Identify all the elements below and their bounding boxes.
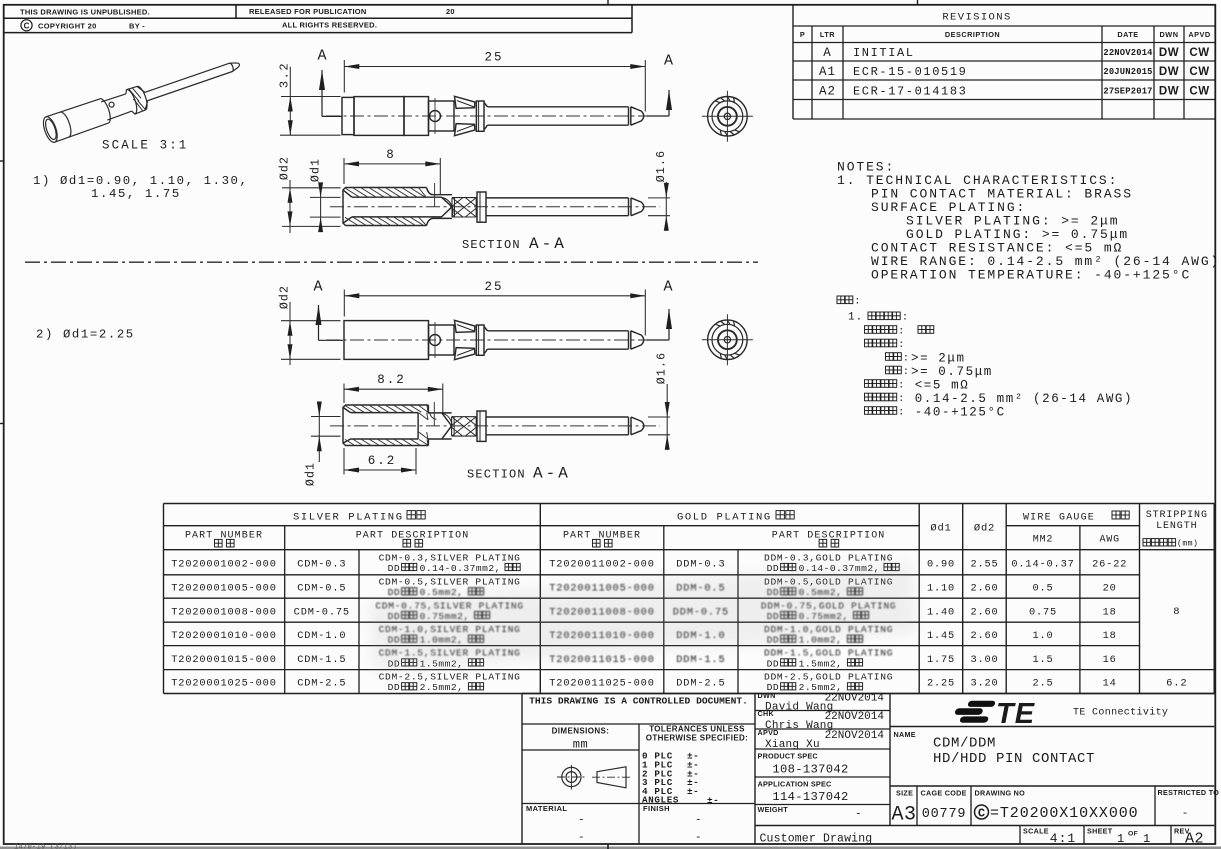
svg-text:DD: DD	[767, 563, 780, 574]
svg-text:DESCRIPTION: DESCRIPTION	[945, 30, 1000, 39]
svg-text:2.5mm2,: 2.5mm2,	[420, 682, 464, 693]
svg-text:DDM-0.3: DDM-0.3	[676, 558, 725, 570]
svg-text:3.00: 3.00	[970, 654, 998, 666]
dimension 3.2	[281, 96, 341, 98]
svg-text:THIS DRAWING IS A CONTROLLED D: THIS DRAWING IS A CONTROLLED DOCUMENT.	[529, 695, 748, 706]
svg-text:0.14-0.37mm2,: 0.14-0.37mm2,	[420, 563, 501, 574]
svg-text:CW: CW	[1189, 86, 1209, 98]
svg-text:PART NUMBER: PART NUMBER	[563, 531, 641, 542]
svg-text:CDM-0.75: CDM-0.75	[294, 606, 350, 618]
end view crosshair	[702, 339, 753, 341]
svg-text:CDM-0.3: CDM-0.3	[297, 558, 346, 570]
end view circles	[708, 97, 748, 137]
svg-text:25: 25	[484, 280, 503, 294]
svg-text:A2: A2	[819, 85, 836, 99]
svg-text:1.75: 1.75	[927, 654, 955, 666]
svg-text:INITIAL: INITIAL	[853, 46, 915, 60]
svg-text:-: -	[695, 832, 702, 844]
svg-text:A-A: A-A	[529, 235, 567, 253]
svg-text:REVISIONS: REVISIONS	[942, 12, 1011, 24]
svg-text:1.0: 1.0	[1032, 630, 1053, 642]
svg-text:4:1: 4:1	[1050, 831, 1076, 846]
svg-text::: :	[854, 297, 860, 308]
svg-text:1.5: 1.5	[1032, 654, 1053, 666]
svg-text:<=5 mΩ: <=5 mΩ	[915, 378, 970, 392]
svg-text:DWN: DWN	[1160, 30, 1179, 39]
svg-text:20JUN2015: 20JUN2015	[1103, 67, 1152, 77]
bore end funnel	[442, 197, 453, 207]
svg-text:22NOV2014: 22NOV2014	[825, 711, 885, 723]
projection symbol	[557, 765, 631, 790]
svg-text:=T20200X10XX000: =T20200X10XX000	[990, 805, 1139, 822]
svg-text::: :	[898, 326, 904, 337]
svg-text:FINISH: FINISH	[643, 804, 670, 813]
svg-text:ECR-17-014183: ECR-17-014183	[853, 85, 967, 99]
svg-text:2.5: 2.5	[1032, 678, 1053, 690]
fold mark top right	[917, 0, 919, 6]
svg-text:ALL RIGHTS RESERVED.: ALL RIGHTS RESERVED.	[282, 21, 377, 30]
svg-text:T2020001002-000: T2020001002-000	[171, 558, 276, 570]
svg-text:1.45: 1.45	[927, 630, 955, 642]
svg-text:WIRE GAUGE: WIRE GAUGE	[1023, 513, 1095, 524]
neck step	[427, 188, 453, 226]
svg-text:STRIPPING: STRIPPING	[1146, 510, 1208, 521]
svg-text:2.25: 2.25	[927, 678, 955, 690]
copyright symbol	[21, 20, 32, 31]
svg-text:22NOV2014: 22NOV2014	[825, 693, 885, 705]
retention crown fins	[455, 96, 475, 108]
svg-text:SILVER PLATING: SILVER PLATING	[293, 512, 404, 524]
svg-text:RELEASED FOR PUBLICATION: RELEASED FOR PUBLICATION	[249, 7, 367, 16]
svg-text:PART DESCRIPTION: PART DESCRIPTION	[772, 531, 886, 542]
svg-text:Ød1: Ød1	[309, 158, 322, 182]
svg-text:CDM-2.5,SILVER PLATING: CDM-2.5,SILVER PLATING	[379, 672, 521, 683]
svg-text:David Wang: David Wang	[765, 702, 834, 714]
unpublished notice box	[4, 17, 632, 19]
dimension diameter 1.6 (view4)	[648, 416, 670, 418]
notes chinese	[837, 296, 845, 304]
svg-text:DW: DW	[1159, 66, 1179, 78]
svg-text:SCALE: SCALE	[1023, 827, 1049, 836]
svg-text:A: A	[317, 48, 326, 65]
bore lines	[351, 412, 419, 414]
svg-text:APPLICATION SPEC: APPLICATION SPEC	[758, 780, 833, 789]
svg-text:PART DESCRIPTION: PART DESCRIPTION	[356, 531, 470, 542]
svg-text:THIS DRAWING IS UNPUBLISHED.: THIS DRAWING IS UNPUBLISHED.	[20, 7, 150, 16]
svg-text:TOLERANCES UNLESS: TOLERANCES UNLESS	[649, 725, 745, 734]
dimension 8	[344, 163, 440, 165]
svg-text:-: -	[695, 815, 702, 827]
svg-text:26-22: 26-22	[1092, 558, 1127, 570]
dimension diameter d1 (view4)	[311, 416, 341, 418]
svg-text::: :	[903, 367, 909, 378]
svg-text:-: -	[578, 815, 585, 827]
svg-text::: :	[898, 394, 904, 405]
svg-text:mm: mm	[573, 738, 588, 752]
svg-text:2.60: 2.60	[970, 583, 998, 595]
svg-text:DDM-2.5,GOLD PLATING: DDM-2.5,GOLD PLATING	[764, 672, 893, 683]
svg-text::: :	[898, 407, 904, 418]
dimension diameter d2 (view3)	[281, 320, 341, 322]
svg-text:0.90: 0.90	[927, 558, 955, 570]
svg-text:DIMENSIONS:: DIMENSIONS:	[552, 727, 610, 736]
svg-text:Ø1.6: Ø1.6	[655, 352, 668, 384]
svg-text:LTR: LTR	[820, 30, 835, 39]
svg-text:CDM/DDM: CDM/DDM	[933, 736, 996, 752]
svg-text:OF: OF	[1128, 831, 1138, 838]
svg-text:CDM-1.0: CDM-1.0	[297, 630, 346, 642]
svg-text:20: 20	[446, 7, 455, 16]
svg-text:1.10: 1.10	[927, 583, 955, 595]
svg-text:NAME: NAME	[894, 730, 916, 739]
dim 25 extension lines	[343, 60, 345, 93]
scan edge band bottom	[0, 847, 1221, 849]
entry chamfer	[343, 407, 351, 412]
svg-text:00779: 00779	[922, 807, 967, 822]
svg-text:SECTION: SECTION	[467, 468, 526, 482]
svg-text:-40-+125°C: -40-+125°C	[915, 405, 1006, 419]
svg-text:>= 0.75μm: >= 0.75μm	[911, 365, 993, 379]
svg-text:2) Ød1=2.25: 2) Ød1=2.25	[36, 327, 135, 341]
dimension 6.2	[344, 469, 416, 471]
contact body rear barrel	[342, 97, 354, 134]
svg-text:T2020001005-000: T2020001005-000	[171, 583, 276, 595]
svg-text:DWN: DWN	[758, 691, 776, 700]
svg-text:T2020001010-000: T2020001010-000	[171, 630, 276, 642]
fold mark top center	[607, 0, 609, 5]
svg-text:CDM-2.5: CDM-2.5	[297, 678, 346, 690]
svg-text:DRAWING NO: DRAWING NO	[975, 789, 1026, 798]
contact body rear barrel	[344, 321, 429, 360]
svg-text::: :	[902, 313, 908, 324]
centerline	[330, 206, 660, 208]
title block frame	[521, 694, 523, 845]
svg-text:2.60: 2.60	[970, 630, 998, 642]
svg-text:DD: DD	[388, 587, 401, 598]
svg-text:2.60: 2.60	[970, 606, 998, 618]
svg-text:APVD: APVD	[758, 728, 779, 737]
svg-text:T2020001008-000: T2020001008-000	[171, 606, 276, 618]
svg-text:SCALE 3:1: SCALE 3:1	[102, 138, 188, 152]
svg-text:A: A	[664, 53, 673, 70]
svg-text:108-137042: 108-137042	[772, 763, 848, 777]
svg-text:0.14-0.37: 0.14-0.37	[1011, 558, 1074, 570]
svg-text::: :	[898, 340, 904, 351]
end view circles	[708, 320, 748, 360]
svg-text:14: 14	[1103, 678, 1117, 690]
bore end funnel	[442, 413, 451, 425]
svg-text:1: 1	[1117, 832, 1124, 846]
dim 25 extension lines	[343, 290, 345, 317]
svg-text:SHEET: SHEET	[1087, 827, 1113, 836]
dimension 25	[344, 66, 645, 68]
pin shaft	[488, 106, 629, 108]
svg-text:8: 8	[386, 148, 396, 162]
svg-text:1470-19 (3/13): 1470-19 (3/13)	[14, 844, 77, 849]
svg-text:6.2: 6.2	[1166, 678, 1187, 690]
centerline	[330, 425, 660, 427]
svg-text:COPYRIGHT 20: COPYRIGHT 20	[38, 21, 97, 30]
dimension 25	[344, 295, 645, 297]
fold mark left upper	[0, 160, 4, 162]
svg-text:OTHERWISE SPECIFIED:: OTHERWISE SPECIFIED:	[646, 734, 748, 743]
svg-text:1) Ød1=0.90, 1.10, 1.30,: 1) Ød1=0.90, 1.10, 1.30,	[33, 174, 249, 188]
dimension diameter 1.6	[648, 197, 670, 199]
svg-text:>= 2μm: >= 2μm	[911, 351, 966, 365]
svg-text:A3: A3	[892, 804, 917, 827]
dimension diameter d1	[310, 196, 341, 198]
svg-text:T2020001015-000: T2020001015-000	[171, 654, 276, 666]
svg-text:RESTRICTED TO: RESTRICTED TO	[1158, 788, 1220, 797]
svg-text:1.45, 1.75: 1.45, 1.75	[91, 187, 181, 201]
centerline	[326, 115, 660, 117]
svg-text:18: 18	[1103, 630, 1117, 642]
svg-text:A-A: A-A	[533, 465, 571, 483]
svg-text:ECR-15-010519: ECR-15-010519	[853, 65, 967, 79]
svg-text:CDM-0.5: CDM-0.5	[297, 583, 346, 595]
svg-text:DATE: DATE	[1117, 30, 1138, 39]
bullet tip	[631, 198, 644, 216]
svg-text:Ød1: Ød1	[930, 523, 951, 535]
svg-text:1.5mm2,: 1.5mm2,	[799, 658, 843, 669]
svg-text:±-: ±-	[687, 786, 699, 797]
svg-text:25: 25	[484, 51, 503, 65]
retention crown fins	[455, 320, 475, 332]
svg-text:Ød2: Ød2	[974, 523, 995, 535]
svg-text:TE Connectivity: TE Connectivity	[1073, 707, 1168, 719]
shaft	[486, 416, 629, 418]
end view crosshair	[702, 115, 753, 117]
svg-text:Customer Drawing: Customer Drawing	[760, 833, 873, 846]
svg-text:T2020001025-000: T2020001025-000	[171, 678, 276, 690]
svg-text:C: C	[24, 21, 30, 30]
svg-text:CHK: CHK	[758, 709, 775, 718]
end view crown tine marks	[733, 321, 734, 326]
svg-text:MATERIAL: MATERIAL	[526, 804, 567, 813]
shaft	[486, 197, 629, 199]
svg-text:AWG: AWG	[1099, 535, 1119, 546]
svg-text:8: 8	[1173, 606, 1180, 618]
TE logo	[952, 701, 995, 723]
svg-text:DD: DD	[388, 563, 401, 574]
svg-text:0.5: 0.5	[1032, 583, 1053, 595]
svg-text:OPERATION TEMPERATURE: -40-+12: OPERATION TEMPERATURE: -40-+125°C	[871, 267, 1191, 282]
svg-text:DDM-0.3,GOLD PLATING: DDM-0.3,GOLD PLATING	[764, 552, 893, 563]
svg-text:C: C	[978, 806, 985, 820]
end view crown tine marks	[733, 97, 734, 102]
svg-text:SIZE: SIZE	[896, 789, 913, 798]
svg-text:20: 20	[1103, 583, 1117, 595]
collar ring	[477, 192, 486, 222]
svg-text:Ød2: Ød2	[279, 285, 292, 309]
svg-text:Ø1.6: Ø1.6	[655, 150, 668, 182]
svg-text:CW: CW	[1189, 66, 1209, 78]
separator centerline	[25, 261, 758, 263]
svg-text:PART NUMBER: PART NUMBER	[185, 531, 263, 542]
svg-text::: :	[903, 353, 909, 364]
svg-text:1: 1	[1143, 832, 1150, 846]
svg-text:0.14-2.5 mm² (26-14 AWG): 0.14-2.5 mm² (26-14 AWG)	[915, 392, 1133, 406]
collar ring	[476, 325, 484, 355]
svg-text:A: A	[313, 279, 322, 296]
svg-text:8.2: 8.2	[377, 373, 406, 387]
svg-text:3.20: 3.20	[970, 678, 998, 690]
svg-text:18: 18	[1103, 606, 1117, 618]
svg-text:PRODUCT SPEC: PRODUCT SPEC	[758, 752, 819, 761]
svg-text::: :	[898, 380, 904, 391]
svg-text:SECTION: SECTION	[462, 238, 521, 252]
svg-text:BY -: BY -	[129, 21, 145, 30]
svg-text:GOLD PLATING: GOLD PLATING	[677, 512, 772, 524]
wall hatching	[345, 188, 426, 197]
svg-text:(mm): (mm)	[1177, 539, 1198, 549]
entry chamfer	[343, 190, 352, 197]
svg-text:DDM-1.5: DDM-1.5	[676, 654, 725, 666]
svg-text:A2: A2	[1185, 831, 1204, 848]
svg-text:CDM-0.5,SILVER PLATING: CDM-0.5,SILVER PLATING	[379, 577, 521, 588]
svg-text:A: A	[663, 279, 672, 296]
svg-text:A: A	[823, 46, 832, 60]
crimp feature line	[434, 183, 436, 207]
dimension diameter d2	[282, 187, 341, 189]
svg-text:2.5mm2,: 2.5mm2,	[799, 682, 843, 693]
svg-text:1.: 1.	[848, 312, 863, 324]
svg-text:DD: DD	[388, 682, 401, 693]
svg-text:22NOV2014: 22NOV2014	[1103, 48, 1153, 58]
svg-text:±-: ±-	[707, 795, 719, 806]
svg-text:CDM-1.5: CDM-1.5	[297, 654, 346, 666]
watermark smudge	[368, 563, 917, 671]
sectioned barrel outline	[343, 188, 427, 226]
ring bevel to shaft	[484, 327, 488, 331]
collar ring	[477, 411, 486, 441]
bore lines	[352, 196, 442, 198]
dimension 8.2	[344, 388, 443, 390]
collar ring	[476, 101, 484, 131]
neck step	[428, 405, 451, 446]
centerline	[326, 339, 660, 341]
svg-text:2.55: 2.55	[970, 558, 998, 570]
fold mark bottom center	[607, 844, 609, 849]
svg-text:-: -	[1182, 808, 1189, 820]
pin shaft	[488, 330, 629, 332]
svg-text:DDM-1.5,GOLD PLATING: DDM-1.5,GOLD PLATING	[764, 648, 893, 659]
svg-text:WEIGHT: WEIGHT	[758, 805, 789, 814]
svg-text:APVD: APVD	[1188, 30, 1210, 39]
bullet tip	[631, 417, 644, 435]
svg-text:0.75: 0.75	[1029, 606, 1057, 618]
svg-text:CDM-0.3,SILVER PLATING: CDM-0.3,SILVER PLATING	[379, 552, 521, 563]
fold mark left lower	[0, 423, 4, 425]
bullet tip	[631, 331, 644, 349]
sectioned barrel outline	[343, 405, 428, 446]
svg-text:CW: CW	[1189, 47, 1209, 59]
svg-text:-: -	[855, 809, 862, 821]
svg-text:114-137042: 114-137042	[772, 790, 848, 804]
svg-text:T2020011002-000: T2020011002-000	[549, 558, 654, 570]
svg-text:DW: DW	[1159, 86, 1179, 98]
svg-text:LENGTH: LENGTH	[1156, 521, 1197, 532]
svg-text:MM2: MM2	[1033, 535, 1053, 546]
svg-text:1.40: 1.40	[927, 606, 955, 618]
mid section with inspection hole	[429, 325, 455, 355]
svg-text:A1: A1	[819, 65, 836, 79]
svg-text:CAGE CODE: CAGE CODE	[921, 789, 967, 798]
mid section with inspection hole	[429, 101, 455, 131]
svg-text:DD: DD	[767, 658, 780, 669]
ring bevel to shaft	[484, 103, 488, 107]
pin contact isometric view scale 3:1	[41, 52, 244, 144]
svg-text:Ød2: Ød2	[279, 156, 292, 180]
svg-text:P: P	[800, 30, 805, 39]
svg-text:TE: TE	[996, 698, 1036, 730]
svg-text:16: 16	[1103, 654, 1117, 666]
svg-text:27SEP2017: 27SEP2017	[1103, 87, 1152, 97]
revisions table frame	[792, 5, 794, 119]
svg-text:22NOV2014: 22NOV2014	[825, 730, 885, 742]
svg-text:Ød1: Ød1	[305, 462, 318, 486]
svg-text:HD/HDD PIN CONTACT: HD/HDD PIN CONTACT	[933, 751, 1095, 767]
svg-text:T2020011025-000: T2020011025-000	[549, 678, 654, 690]
bullet tip	[631, 107, 644, 125]
crimp feature line	[433, 402, 435, 426]
svg-text:Xiang Xu: Xiang Xu	[765, 739, 820, 751]
svg-text:-: -	[578, 832, 585, 844]
svg-text:DDM-2.5: DDM-2.5	[676, 678, 725, 690]
parts table frame	[163, 504, 165, 694]
wall hatching	[345, 406, 428, 413]
svg-text:6.2: 6.2	[368, 454, 397, 468]
svg-text:3.2: 3.2	[278, 62, 292, 88]
svg-text:DW: DW	[1159, 47, 1179, 59]
